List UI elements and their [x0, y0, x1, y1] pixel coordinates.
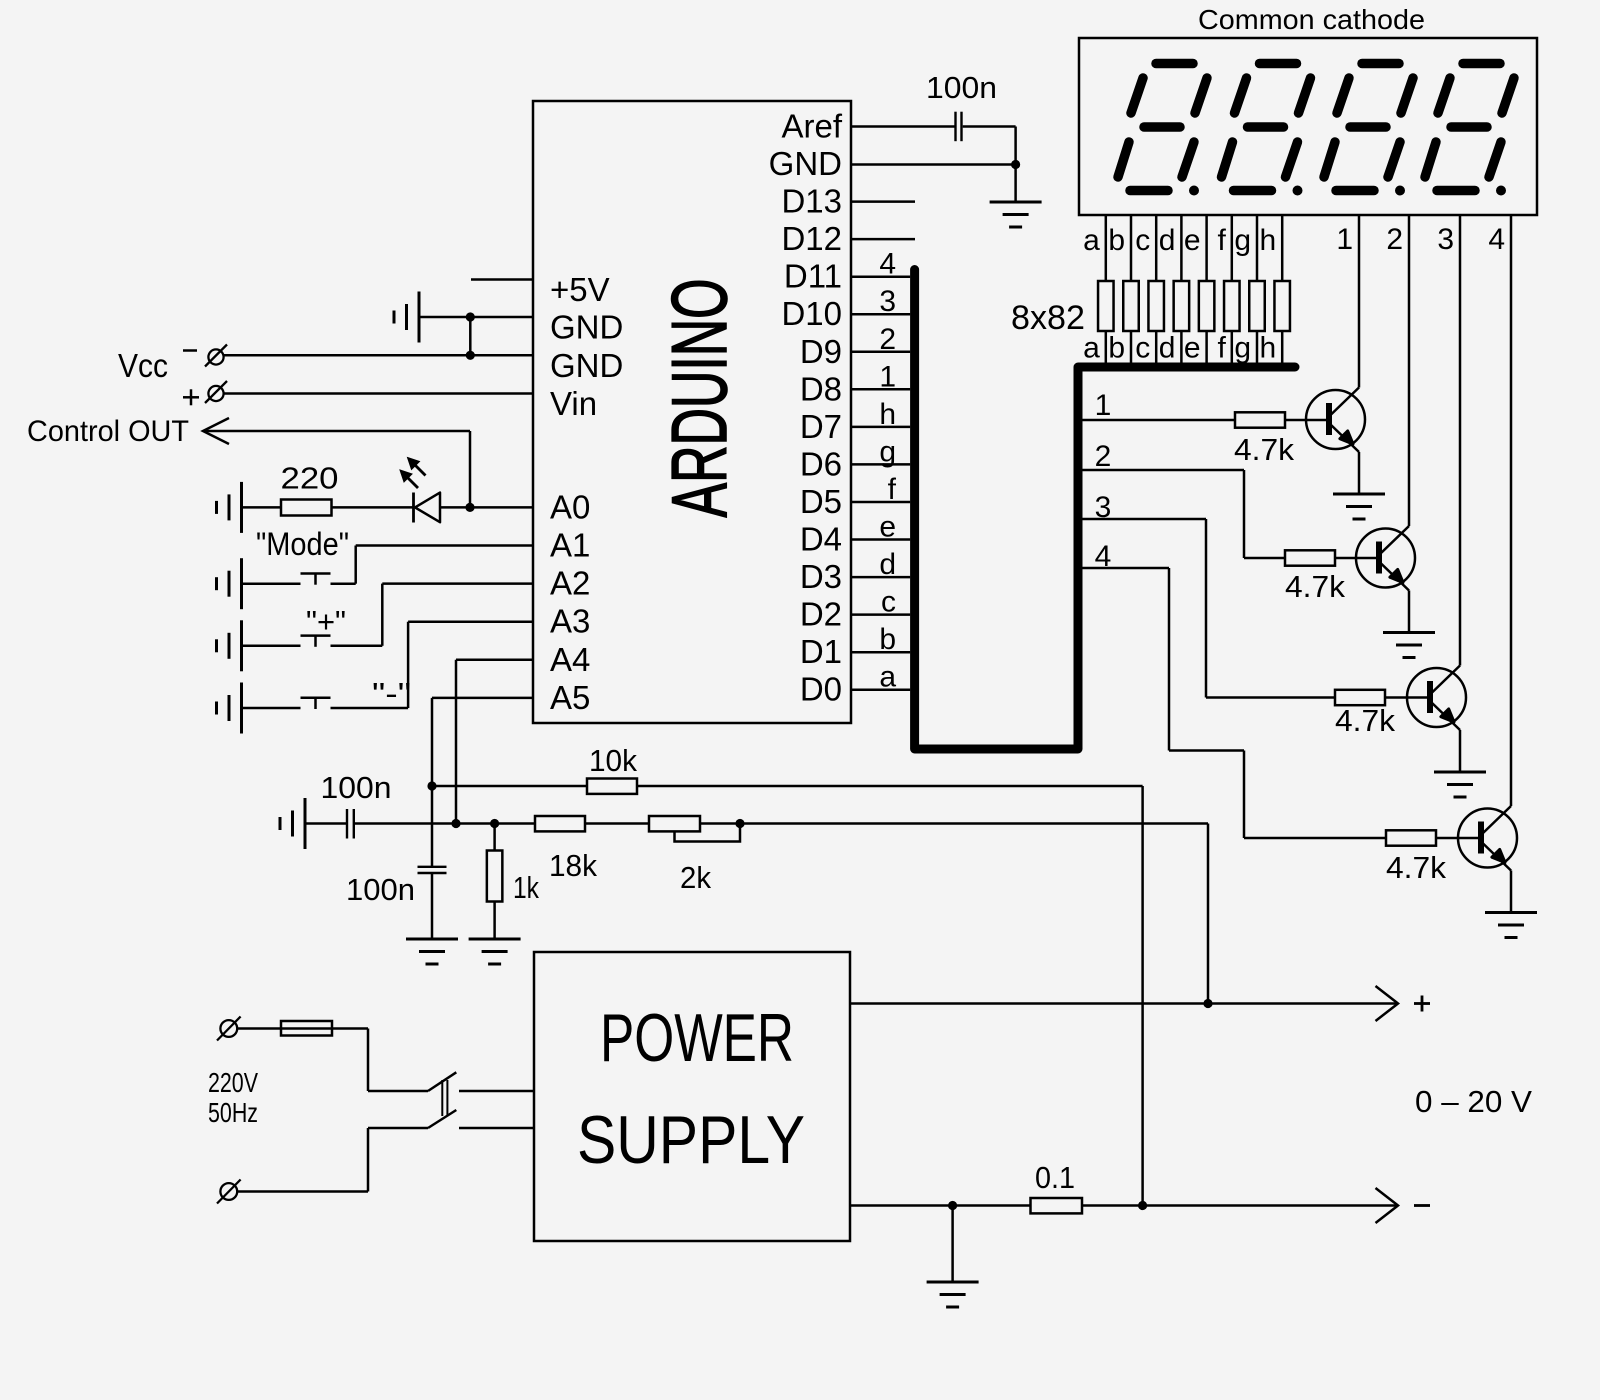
wire Q3 emitter [1459, 730, 1462, 772]
wire D13 stub [851, 200, 915, 203]
label 8x82 [1011, 299, 1085, 337]
svg-text:"Mode": "Mode" [256, 526, 349, 562]
label e (display pin) [1184, 224, 1201, 257]
pin label D8 [800, 370, 842, 407]
wire Q2 emitter [1408, 591, 1411, 633]
pin label D10 [781, 295, 842, 332]
wire button plus right [331, 584, 534, 646]
label f (bus) [888, 473, 897, 506]
node A4 junction [451, 819, 460, 828]
pin label +5V [550, 271, 610, 308]
svg-text:d: d [1159, 332, 1176, 365]
ground (1k) [469, 939, 521, 964]
label d (bus) [879, 548, 896, 581]
display digit 4 segments [1425, 64, 1514, 196]
svg-text:Vin: Vin [550, 385, 597, 422]
label g (below resistor) [1234, 332, 1251, 365]
pin label D6 [800, 445, 842, 482]
pin label D0 [800, 671, 842, 708]
label g (bus) [879, 435, 896, 468]
wire mains L [237, 1029, 428, 1092]
wire D pin (e) [851, 538, 910, 541]
capacitor 100n (Aref) [956, 112, 962, 142]
LED D1 [414, 493, 441, 523]
fuse F1 [281, 1021, 332, 1036]
label plus (Vcc) [183, 389, 199, 405]
wire D pin (a) [851, 688, 910, 691]
display digit 1 segments [1118, 64, 1207, 196]
wire digit line 4 [1078, 568, 1386, 838]
wire display pin 4 [1510, 215, 1513, 806]
arrow output minus [1376, 1188, 1399, 1223]
svg-text:A5: A5 [550, 679, 590, 716]
wire GND pin [851, 163, 1016, 166]
svg-text:220: 220 [281, 461, 339, 496]
svg-text:h: h [1260, 332, 1277, 365]
wire A5 to divider [432, 698, 533, 866]
label b (bus) [879, 623, 896, 656]
svg-text:D13: D13 [781, 183, 842, 220]
label 4.7k (R1) [1234, 432, 1294, 467]
svg-text:f: f [888, 473, 897, 506]
svg-text:h: h [879, 398, 896, 431]
label 1 (digit line) [1095, 389, 1112, 422]
svg-text:GND: GND [550, 347, 623, 384]
svg-text:4.7k: 4.7k [1386, 850, 1446, 885]
svg-text:+5V: +5V [550, 271, 610, 308]
wire bus (thick) [915, 270, 1295, 750]
label 220 [281, 461, 339, 496]
resistor 82 (g) [1249, 281, 1265, 331]
label e (bus) [879, 511, 896, 544]
label b (below resistor) [1108, 332, 1125, 365]
label plus (output) [1414, 996, 1430, 1012]
resistor 0.1 (shunt) [1031, 1198, 1083, 1213]
ground (button minus) [217, 683, 242, 734]
label "Mode" [256, 526, 349, 562]
pin label GND [550, 347, 623, 384]
pin label D2 [800, 596, 842, 633]
wire D pin (c) [851, 613, 910, 616]
node A0 junction [465, 503, 474, 512]
svg-text:4.7k: 4.7k [1234, 432, 1294, 467]
wire display pin 3 [1459, 215, 1462, 666]
resistor R3 4.7k [1335, 690, 1385, 705]
switch push-button Mode [301, 574, 331, 585]
label "-" [372, 676, 411, 711]
pin label A5 [550, 679, 590, 716]
svg-text:d: d [1159, 224, 1176, 257]
ground (Q2) [1383, 633, 1435, 658]
switch S1 pole 2 [428, 1110, 456, 1128]
pin label D7 [800, 408, 842, 445]
wire 10k line [432, 786, 1143, 1206]
switch S1 pole 1 [428, 1072, 456, 1091]
wire D pin (4) [851, 275, 910, 278]
wire digit line 3 [1078, 519, 1335, 698]
wire D pin (d) [851, 576, 910, 579]
svg-text:POWER: POWER [600, 1000, 794, 1076]
label SUPPLY [577, 1102, 805, 1178]
ground (button Mode) [217, 558, 242, 609]
svg-text:1: 1 [1095, 389, 1112, 422]
wire button plus left [242, 645, 301, 648]
transistor Q1 [1306, 388, 1365, 453]
svg-text:D10: D10 [781, 295, 842, 332]
node Aref/GND junction [1011, 160, 1020, 169]
wire Aref [851, 125, 955, 128]
svg-text:4: 4 [1488, 223, 1505, 256]
pin label Aref [781, 108, 842, 145]
terminal Vcc plus [205, 381, 227, 403]
resistor R1 4.7k [1235, 412, 1285, 427]
label 0.1 [1035, 1160, 1075, 1195]
svg-text:4.7k: 4.7k [1335, 703, 1395, 738]
wire D pin (f) [851, 501, 910, 504]
ground (Q3) [1434, 772, 1486, 797]
svg-text:g: g [879, 435, 896, 468]
svg-text:D2: D2 [800, 596, 842, 633]
svg-text:A1: A1 [550, 527, 590, 564]
svg-text:10k: 10k [589, 743, 637, 778]
label Control OUT [27, 415, 189, 448]
svg-text:A0: A0 [550, 488, 590, 525]
label 2 (bus) [879, 323, 896, 356]
terminal mains N [217, 1180, 241, 1204]
power supply block [534, 952, 850, 1241]
pin label D4 [800, 521, 842, 558]
svg-text:D3: D3 [800, 558, 842, 595]
ground (Q1) [1333, 494, 1385, 519]
ground (button plus) [217, 620, 242, 671]
svg-text:1k: 1k [513, 870, 539, 905]
pin label Vin [550, 385, 597, 422]
label d (display pin) [1159, 224, 1176, 257]
resistor 82 (c) [1148, 281, 1164, 331]
svg-text:4: 4 [879, 248, 896, 281]
label c (below resistor) [1135, 332, 1150, 365]
svg-text:D1: D1 [800, 633, 842, 670]
wire to ground (output) [951, 1206, 954, 1283]
ground (output) [927, 1282, 979, 1307]
wire Aref cap to ground [963, 127, 1016, 203]
ground (Aref) [990, 202, 1042, 227]
label h (bus) [879, 398, 896, 431]
svg-text:e: e [1184, 332, 1201, 365]
svg-text:"+": "+" [306, 604, 346, 639]
wire Vcc plus to Vin [224, 392, 534, 395]
svg-text:3: 3 [879, 285, 896, 318]
svg-text:GND: GND [769, 145, 842, 182]
wire button Mode right [331, 546, 534, 584]
resistor R2 4.7k [1285, 550, 1335, 565]
resistor 82 (b) [1123, 281, 1139, 331]
resistor 82 (a) [1098, 281, 1114, 331]
wire D pin (1) [851, 388, 910, 391]
svg-text:c: c [1135, 332, 1150, 365]
svg-text:D9: D9 [800, 333, 842, 370]
wire +5V stub [471, 278, 533, 281]
switch S1 link [442, 1080, 447, 1116]
pin label GND [769, 145, 842, 182]
resistor 18k [535, 816, 585, 831]
svg-text:18k: 18k [549, 848, 597, 883]
svg-text:g: g [1234, 224, 1251, 257]
arrow Control OUT [203, 418, 229, 444]
display DS1 (4-digit 7-segment) [1079, 38, 1537, 215]
pin label A2 [550, 565, 590, 602]
wire Q1 emitter [1358, 452, 1361, 494]
label 3 (digit line) [1095, 491, 1112, 524]
label 4.7k (R4) [1386, 850, 1446, 885]
label 1k [513, 870, 539, 905]
wire display pin 2 [1408, 215, 1411, 526]
svg-text:D0: D0 [800, 671, 842, 708]
svg-text:h: h [1260, 224, 1277, 257]
pin label D1 [800, 633, 842, 670]
resistor R4 4.7k [1386, 830, 1436, 845]
wire sense line [355, 824, 1208, 1004]
label Common cathode [1198, 4, 1425, 35]
svg-text:2: 2 [1095, 440, 1112, 473]
pin label A1 [550, 527, 590, 564]
wire Control OUT [203, 431, 470, 507]
svg-text:a: a [1083, 224, 1100, 257]
transistor Q2 [1356, 526, 1415, 591]
svg-text:b: b [1108, 332, 1125, 365]
svg-text:4.7k: 4.7k [1285, 569, 1345, 604]
svg-text:c: c [881, 586, 896, 619]
svg-text:g: g [1234, 332, 1251, 365]
label 1 (bus) [879, 360, 896, 393]
pin label D9 [800, 333, 842, 370]
svg-text:e: e [879, 511, 896, 544]
transistor Q3 [1407, 666, 1466, 731]
svg-text:SUPPLY: SUPPLY [577, 1102, 805, 1178]
node filter cap junction [948, 1201, 957, 1210]
terminal mains L [217, 1017, 241, 1041]
label a (below resistor) [1083, 332, 1100, 365]
wire Q4 emitter [1510, 871, 1513, 913]
label 4.7k (R3) [1335, 703, 1395, 738]
wire digit line 1 [1078, 419, 1235, 422]
switch push-button plus [301, 636, 331, 647]
label d (below resistor) [1159, 332, 1176, 365]
svg-text:ARDUINO: ARDUINO [655, 279, 743, 518]
svg-text:2k: 2k [680, 860, 711, 895]
svg-text:D7: D7 [800, 408, 842, 445]
pin label D12 [781, 220, 842, 257]
label minus (output) [1414, 1204, 1430, 1207]
svg-text:GND: GND [550, 309, 623, 346]
wire 2k tap [675, 824, 741, 842]
node A5/10k junction [427, 781, 436, 790]
svg-text:A4: A4 [550, 641, 590, 678]
svg-text:f: f [1217, 332, 1226, 365]
node 1k junction [490, 819, 499, 828]
wire output minus [850, 1204, 1398, 1207]
label "+" [306, 604, 346, 639]
label c (bus) [881, 586, 896, 619]
svg-text:Vcc: Vcc [118, 347, 168, 384]
label h (display pin) [1260, 224, 1277, 257]
resistor 82 (h) [1274, 281, 1290, 331]
terminal Vcc minus [205, 345, 227, 367]
label 50Hz [208, 1097, 258, 1128]
pin label D13 [781, 183, 842, 220]
label 10k [589, 743, 637, 778]
arduino U1 label [655, 279, 743, 518]
label 4 (display pin) [1488, 223, 1505, 256]
wire display pin c [1155, 215, 1158, 363]
svg-text:Control OUT: Control OUT [27, 415, 189, 448]
wire button minus left [242, 707, 301, 710]
label c (display pin) [1135, 224, 1150, 257]
svg-text:100n: 100n [321, 770, 392, 805]
display digit 3 segments [1324, 64, 1413, 196]
wire display pin e [1205, 215, 1208, 363]
wire R1 to Q1 base [1285, 419, 1326, 422]
resistor 220 [281, 500, 332, 516]
resistor 10k [587, 779, 637, 794]
node GND junction 1 [466, 312, 475, 321]
ground (100n input) [280, 798, 305, 849]
svg-text:D4: D4 [800, 521, 842, 558]
label POWER [600, 1000, 794, 1076]
resistor 82 (d) [1174, 281, 1190, 331]
label f (below resistor) [1217, 332, 1226, 365]
display digit 2 segments [1222, 64, 1311, 196]
wire output plus [850, 1002, 1398, 1005]
svg-text:8x82: 8x82 [1011, 299, 1085, 337]
transistor Q4 [1458, 806, 1517, 871]
node shunt junction [1138, 1201, 1147, 1210]
wire display pin b [1130, 215, 1133, 363]
arduino U1 [533, 101, 851, 723]
ground (100n A5) [406, 939, 458, 964]
label e (below resistor) [1184, 332, 1201, 365]
wire D12 stub [851, 238, 915, 241]
wire D pin (2) [851, 351, 910, 354]
label Vcc [118, 347, 168, 384]
wire button minus right [331, 622, 534, 708]
wire LED to A0 [440, 506, 533, 509]
svg-text:0.1: 0.1 [1035, 1160, 1075, 1195]
label 2k [680, 860, 711, 895]
label 1 (display pin) [1336, 223, 1353, 256]
wire D pin (g) [851, 463, 910, 466]
svg-text:100n: 100n [346, 872, 415, 907]
label g (display pin) [1234, 224, 1251, 257]
label b (display pin) [1108, 224, 1125, 257]
wire ground to 100n [305, 822, 346, 825]
wire GND1 [419, 316, 533, 319]
wire display pin a [1105, 215, 1108, 363]
label minus (Vcc) [183, 349, 197, 352]
capacitor 100n (input) [347, 809, 354, 839]
resistor 82 (e) [1199, 281, 1215, 331]
wire D pin (b) [851, 651, 910, 654]
label f (display pin) [1217, 224, 1226, 257]
label 100n (Aref) [926, 70, 997, 105]
svg-text:b: b [1108, 224, 1125, 257]
LED light arrows [400, 458, 426, 489]
wire R4 to Q4 base [1436, 837, 1478, 840]
wire D pin (3) [851, 313, 910, 316]
svg-text:d: d [879, 548, 896, 581]
svg-text:A3: A3 [550, 603, 590, 640]
wire ground to R 220 [242, 506, 282, 509]
pin label GND [550, 309, 623, 346]
svg-text:D5: D5 [800, 483, 842, 520]
pin label D3 [800, 558, 842, 595]
wire display pin d [1180, 215, 1183, 363]
wire display pin 1 [1358, 215, 1361, 388]
svg-text:D12: D12 [781, 220, 842, 257]
svg-text:D8: D8 [800, 370, 842, 407]
pin label D5 [800, 483, 842, 520]
label 4 (digit line) [1095, 540, 1112, 573]
svg-text:"-": "-" [372, 676, 411, 711]
wire GND link vertical [469, 317, 472, 355]
ground (LED chain) [217, 482, 242, 533]
label 18k [549, 848, 597, 883]
wire display pin h [1281, 215, 1284, 363]
switch push-button minus [301, 698, 331, 709]
svg-text:3: 3 [1437, 223, 1454, 256]
resistor 82 (f) [1224, 281, 1240, 331]
label 4.7k (R2) [1285, 569, 1345, 604]
wire A4 to divider [456, 660, 533, 824]
wire display pin f [1231, 215, 1234, 363]
svg-text:50Hz: 50Hz [208, 1097, 258, 1128]
capacitor 100n (A5) [418, 867, 447, 939]
svg-text:2: 2 [1386, 223, 1403, 256]
svg-text:f: f [1217, 224, 1226, 257]
resistor 1k [487, 824, 503, 940]
arrow output plus [1376, 986, 1399, 1021]
svg-text:a: a [879, 661, 896, 694]
svg-text:2: 2 [879, 323, 896, 356]
wire button Mode left [242, 582, 301, 585]
ground (Q4) [1485, 913, 1537, 938]
wire switch to PSU top [459, 1090, 534, 1093]
label 0 - 20 V [1415, 1084, 1532, 1119]
label a (display pin) [1083, 224, 1100, 257]
svg-text:Aref: Aref [781, 108, 842, 145]
wire mains N [237, 1128, 428, 1192]
svg-text:1: 1 [879, 360, 896, 393]
label 3 (bus) [879, 285, 896, 318]
label 2 (digit line) [1095, 440, 1112, 473]
svg-text:A2: A2 [550, 565, 590, 602]
wire Vcc minus to GND2 [224, 354, 534, 357]
label 220V [208, 1067, 258, 1098]
wire R2 to Q2 base [1335, 557, 1376, 560]
svg-text:c: c [1135, 224, 1150, 257]
pin label D11 [784, 258, 842, 295]
wire D pin (h) [851, 426, 910, 429]
wire R3 to Q3 base [1385, 696, 1427, 699]
label 2 (display pin) [1386, 223, 1403, 256]
node 2k tap junction [735, 819, 744, 828]
svg-text:D6: D6 [800, 445, 842, 482]
svg-text:a: a [1083, 332, 1100, 365]
svg-text:1: 1 [1336, 223, 1353, 256]
wire R220 to LED [332, 506, 414, 509]
node output plus junction [1203, 999, 1212, 1008]
label 100n (A5) [346, 872, 415, 907]
